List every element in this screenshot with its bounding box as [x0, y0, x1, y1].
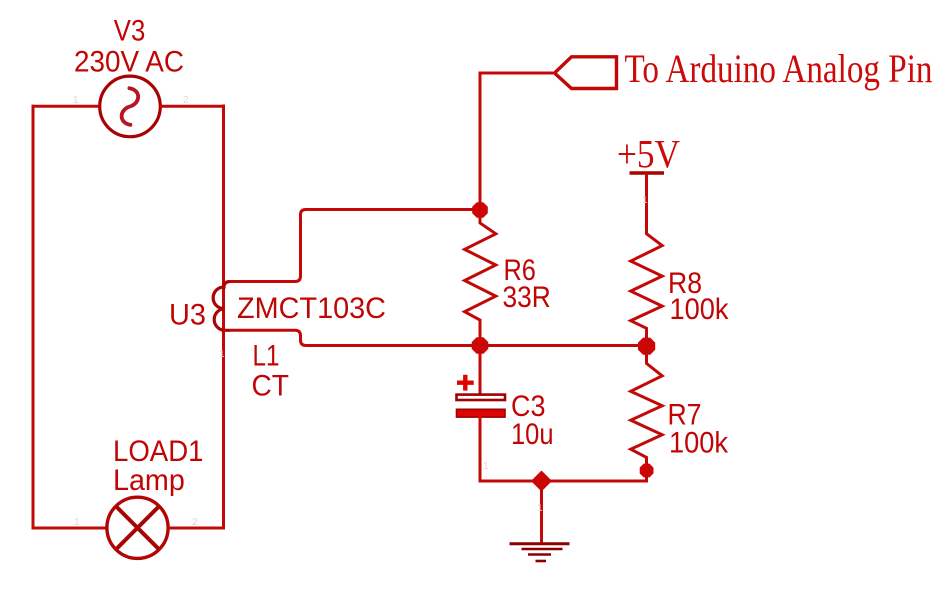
- tag To Arduino Analog Pin: [555, 57, 617, 89]
- svg-text:U3: U3: [169, 299, 206, 332]
- svg-text:L1: L1: [253, 339, 280, 372]
- svg-text:1: 1: [74, 517, 80, 528]
- power +5V bar: [630, 171, 665, 174]
- svg-text:2: 2: [183, 95, 189, 106]
- wire C3 bottom stem: [479, 417, 482, 483]
- wire transformer secondary top lead: [230, 210, 480, 282]
- svg-text:To Arduino Analog Pin: To Arduino Analog Pin: [625, 46, 933, 91]
- junction node R6 top: [472, 202, 488, 218]
- ground: [510, 481, 570, 561]
- resistor R8: [631, 173, 663, 346]
- junction node R6 bottom / C3 top: [472, 337, 489, 354]
- svg-text:2: 2: [192, 517, 198, 528]
- wire middle node: [480, 344, 647, 347]
- lamp LOAD1: [107, 497, 168, 558]
- junction node R8/R7: [638, 338, 655, 355]
- svg-text:1: 1: [642, 195, 648, 206]
- wire bottom node: [480, 470, 647, 481]
- wire bottom-right segment: [168, 527, 226, 530]
- resistor R6: [465, 210, 496, 346]
- svg-text:Lamp: Lamp: [113, 464, 185, 497]
- svg-text:1: 1: [483, 461, 489, 472]
- wire to Arduino tag: [480, 73, 553, 210]
- AC source V3: [100, 76, 161, 137]
- wire bottom-left segment: [32, 527, 108, 530]
- svg-text:100k: 100k: [669, 427, 729, 460]
- svg-text:V3: V3: [114, 15, 146, 48]
- capacitor C3: [457, 375, 506, 417]
- wire top-right segment: [160, 105, 225, 108]
- svg-text:33R: 33R: [503, 281, 551, 314]
- svg-text:1: 1: [73, 95, 79, 106]
- transformer U3 secondary coil: [213, 282, 230, 331]
- svg-text:10u: 10u: [511, 418, 554, 451]
- wire left rail: [32, 105, 35, 530]
- resistor R7: [631, 346, 663, 471]
- svg-text:100k: 100k: [670, 293, 730, 326]
- svg-text:ZMCT103C: ZMCT103C: [237, 292, 386, 325]
- wire right rail (transformer primary): [222, 105, 225, 530]
- svg-text:230V AC: 230V AC: [74, 46, 184, 79]
- svg-text:1: 1: [537, 503, 543, 514]
- wire transformer secondary bottom lead: [230, 330, 480, 345]
- junction node R7 bottom: [640, 464, 654, 478]
- svg-text:+5V: +5V: [617, 132, 680, 177]
- wire C3 top stem: [479, 346, 482, 397]
- junction node ground: [531, 471, 552, 492]
- svg-text:1: 1: [219, 349, 225, 360]
- pin number marks (faint): [73, 95, 648, 528]
- wire top-left segment: [32, 105, 101, 108]
- svg-text:CT: CT: [252, 370, 290, 403]
